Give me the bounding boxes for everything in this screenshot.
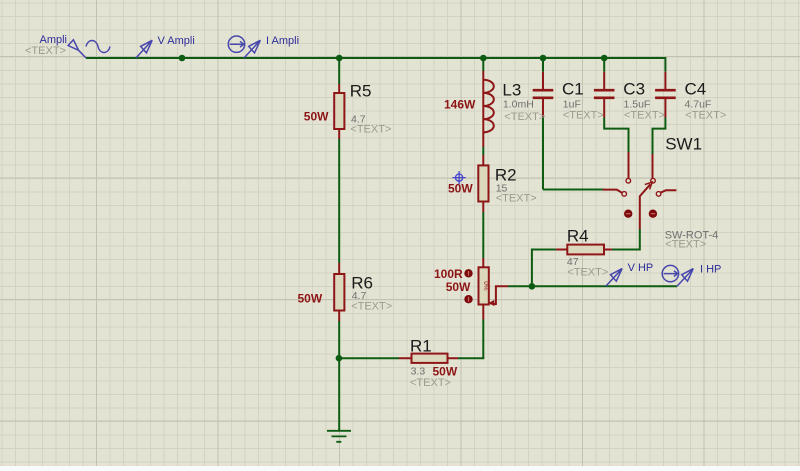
svg-text:C4: C4 [685,80,707,99]
svg-text:I HP: I HP [700,264,721,276]
svg-text:0%: 0% [482,281,489,291]
svg-text:50W: 50W [304,110,329,124]
svg-text:C3: C3 [623,80,645,99]
svg-text:50W: 50W [448,182,473,196]
svg-text:R1: R1 [410,337,432,356]
svg-text:SW1: SW1 [665,135,702,154]
svg-text:I Ampli: I Ampli [266,35,299,47]
svg-text:V Ampli: V Ampli [158,35,195,47]
svg-text:<TEXT>: <TEXT> [624,110,665,122]
svg-text:<TEXT>: <TEXT> [351,301,392,313]
svg-text:V HP: V HP [628,262,654,274]
svg-text:3.3: 3.3 [411,366,426,378]
svg-text:<TEXT>: <TEXT> [410,377,451,389]
svg-text:R5: R5 [350,82,372,101]
svg-text:50W: 50W [433,365,458,379]
svg-text:<TEXT>: <TEXT> [25,45,66,57]
svg-text:100R: 100R [434,267,463,281]
svg-text:<TEXT>: <TEXT> [563,110,604,122]
svg-text:50W: 50W [298,292,323,306]
svg-text:R4: R4 [567,227,589,246]
svg-text:50W: 50W [446,280,471,294]
svg-text:1.0mH: 1.0mH [503,99,534,111]
svg-text:<TEXT>: <TEXT> [350,124,391,136]
svg-text:C1: C1 [562,80,584,99]
svg-text:SW-ROT-4: SW-ROT-4 [665,230,719,242]
svg-text:146W: 146W [444,98,476,112]
svg-text:L3: L3 [502,81,521,100]
svg-text:<TEXT>: <TEXT> [496,193,537,205]
svg-text:<TEXT>: <TEXT> [685,110,726,122]
svg-text:<TEXT>: <TEXT> [567,267,608,279]
svg-text:<TEXT>: <TEXT> [504,111,545,123]
